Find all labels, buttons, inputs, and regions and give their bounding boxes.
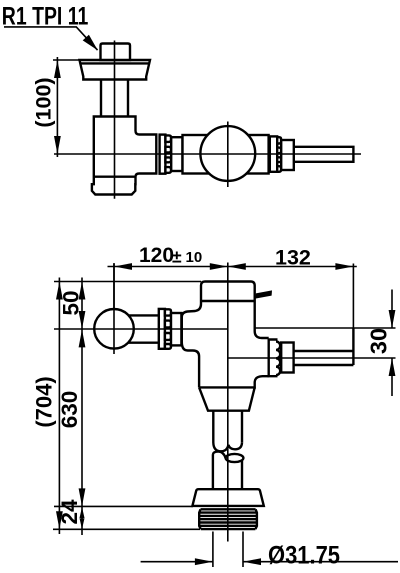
button circle vertical centerline [113,264,115,354]
outlet boss top line / 30-dim extension [256,327,396,329]
pipe break upper squiggle [213,443,242,452]
wall flange (plan trapezoid) [80,60,151,80]
inlet stem (plan) [101,80,128,117]
ext line 132 right [352,264,354,329]
connector threads [199,509,257,529]
svg-text:30: 30 [365,328,391,354]
pipe mouth ellipse [226,454,244,462]
top thread cap R1 [101,44,131,61]
left block [183,135,210,174]
outlet axis centerline / 30-dim extension [228,357,396,359]
dia dim ext lines [213,532,243,568]
dim 630 arrows [79,329,86,506]
body lower right profile [199,376,269,387]
dim arrows 120/132 [114,263,353,270]
button axis centerline [54,328,228,330]
flange top inner line [80,62,150,64]
svg-text:10: 10 [186,249,203,266]
left nut plate [160,135,166,174]
inlet pipe (plan) [294,147,354,162]
svg-text:630: 630 [57,391,82,429]
button nut plate [159,309,165,349]
dim (704) line [58,278,60,535]
top view vertical centerline [114,41,116,199]
ext line 120 left [113,263,115,309]
flush pipe upper [213,411,242,443]
dim 24 line [81,506,83,535]
button spacer [171,313,181,345]
dim 30 line lower [391,358,393,396]
body band divider line [94,175,136,177]
dim 50 arrows [79,282,86,330]
dim (100) line [53,57,80,157]
svg-text:(704): (704) [31,376,56,427]
flush pipe lower [213,455,242,490]
dim 30 arrows [389,310,396,376]
valve body (front) cap and right edge [201,282,269,339]
ext line body top left [54,281,201,283]
body left step profile [182,304,201,387]
svg-text:24: 24 [57,499,82,525]
push button head (plan circle) [200,126,255,181]
button stem lines [120,315,159,342]
tail cone [199,387,255,410]
svg-text:R1 TPI 11: R1 TPI 11 [2,3,89,31]
valve body (plan) with outlet boss [92,117,156,195]
right nut plate [281,140,294,170]
dim 120 +-10 line [108,266,357,268]
svg-text:±: ± [172,247,182,267]
svg-text:132: 132 [275,246,311,270]
svg-text:120: 120 [139,244,174,267]
dia dim arrows [195,558,261,565]
svg-text:50: 50 [59,290,84,315]
outlet flange plate [269,340,278,377]
outlet flange serrations [276,342,280,376]
dim (704) arrows [56,282,63,530]
leader R1 TPI 11 [4,27,98,50]
svg-text:Ø31.75: Ø31.75 [268,542,340,570]
ext line connector top [54,505,193,507]
dia dim line left [141,561,213,563]
left nut serrations [165,135,171,172]
pipe break lower squiggle [213,452,226,458]
right nut serrations [277,137,281,172]
ext line connector bottom [53,528,200,530]
top view horizontal centerline [54,153,361,155]
spacer cylinder [171,137,182,171]
small lever (solid) [255,290,272,298]
leader arrowhead [83,35,98,51]
dim 50/630 line [81,278,83,507]
dim 30 line upper [391,290,393,329]
svg-text:(100): (100) [32,77,56,127]
right nut body [270,136,277,171]
connector cap [192,489,263,506]
dim (100) arrows [54,60,61,154]
push button head (front circle) [94,309,134,349]
right block [247,135,269,174]
dia dim line right [243,561,398,563]
inlet pipe (front) [294,328,354,365]
front view main vertical centerline [227,263,229,542]
outlet nut plate [281,343,293,373]
plan circle vertical centerline [227,122,229,188]
dim 24 arrows [80,507,85,529]
body cap bottom line [201,300,255,302]
button nut serrations [165,309,171,349]
